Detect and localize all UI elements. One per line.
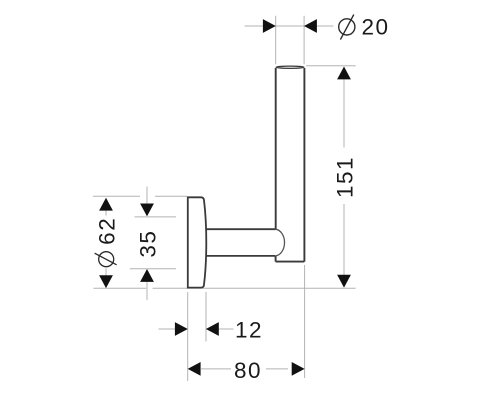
tube left edge [275, 68, 277, 229]
tube left edge lower segment [275, 256, 277, 262]
leader 80 left [201, 368, 231, 370]
leader 12 right [218, 328, 234, 330]
arrow d20 left [263, 19, 276, 33]
arrow d20 right [304, 19, 317, 33]
tube right edge [303, 68, 305, 262]
arrow 151 top [337, 67, 351, 80]
svg-text:151: 151 [333, 156, 358, 198]
extension line d20 right [303, 16, 305, 65]
arm end cap arc [275, 229, 284, 256]
arrow 151 bottom [337, 275, 351, 288]
extension line 35 upper [135, 216, 177, 218]
extension line 80 right [304, 265, 306, 378]
arm top edge [204, 228, 276, 230]
tube bottom edge [276, 261, 305, 263]
dim line d62 lower [105, 269, 107, 288]
arrow 35 top [140, 204, 154, 217]
diameter symbol 20 [339, 15, 355, 40]
leader 35 bottom [146, 282, 148, 301]
arrow d62 top [99, 198, 113, 211]
svg-text:20: 20 [361, 15, 389, 40]
extension line 151 top [306, 65, 356, 67]
svg-text:62: 62 [94, 217, 119, 245]
extension line 35 lower [130, 268, 176, 270]
tube top cap ellipse [276, 66, 304, 68]
arrow 35 bottom [140, 269, 154, 282]
svg-text:12: 12 [235, 318, 263, 343]
extension line d20 left [275, 16, 277, 65]
svg-text:35: 35 [135, 230, 160, 258]
tube body fill [276, 67, 305, 262]
dim line 151 upper [343, 68, 345, 148]
dim line d62 upper [105, 199, 107, 216]
dim line d20 top [245, 25, 334, 27]
arrow 80 left [188, 362, 201, 376]
arrow 80 right [292, 362, 305, 376]
leader 12 left [159, 328, 176, 330]
leader 80 right [266, 368, 288, 370]
extension line bottom shared d62/151 [93, 287, 355, 289]
extension line d62 top [93, 195, 187, 197]
svg-text:80: 80 [234, 358, 262, 383]
leader 35 top [146, 187, 148, 205]
extension line 12 right [205, 292, 207, 342]
wall plate [188, 197, 207, 287]
arrow 12 left [175, 322, 188, 336]
extension line left 12/80 [187, 292, 189, 381]
arrow 12 right [206, 322, 219, 336]
arrow d62 bottom [99, 275, 113, 288]
arm bottom edge [204, 255, 275, 257]
dim line 151 lower [343, 204, 345, 287]
arm fill [204, 229, 285, 256]
diameter symbol 62 [95, 252, 117, 267]
